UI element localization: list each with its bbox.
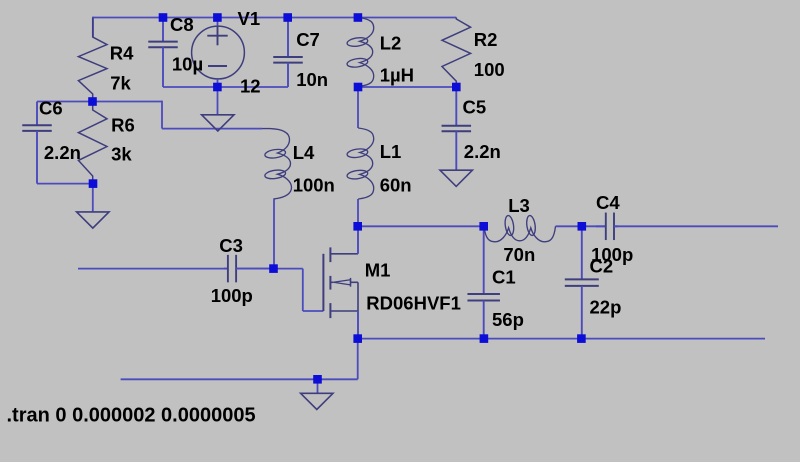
svg-text:R2: R2: [474, 29, 498, 50]
label C2: [590, 255, 614, 276]
svg-text:100: 100: [474, 59, 505, 80]
wire C3 to junction to gate step: [236, 268, 303, 270]
label C8: [170, 14, 194, 35]
svg-text:C7: C7: [296, 29, 320, 50]
label C1: [492, 267, 516, 288]
wire gate rail left: [78, 268, 228, 270]
inductor L4: [262, 129, 292, 200]
capacitor C2: [565, 226, 599, 338]
label C5: [463, 97, 487, 118]
inductor L1: [347, 128, 374, 199]
svg-text:12: 12: [240, 75, 261, 96]
junction node L3 right: [578, 222, 587, 231]
svg-text:70n: 70n: [503, 244, 535, 265]
resistor R6: [78, 102, 107, 184]
wire R4 top lead: [92, 17, 94, 37]
svg-text:R6: R6: [111, 114, 135, 135]
label C6 value 2.2n: [44, 142, 81, 163]
label M1: [365, 259, 391, 280]
wire C6 bottom to R6 bottom: [37, 183, 93, 185]
label C3: [219, 235, 243, 256]
junction node source: [353, 334, 362, 343]
ground below source rail: [301, 379, 333, 409]
inductor L2: [347, 18, 374, 87]
wire L2 bottom to R2 bottom: [358, 86, 457, 88]
capacitor C7: [273, 18, 303, 88]
svg-text:56p: 56p: [492, 309, 524, 330]
svg-text:3k: 3k: [111, 144, 132, 165]
svg-text:L1: L1: [380, 141, 402, 162]
spice directive .tran: [7, 405, 256, 427]
label R6: [111, 114, 135, 135]
junction node ground rail: [313, 375, 322, 384]
wire L3 right to C4: [556, 225, 606, 227]
label L1: [380, 141, 402, 162]
svg-text:2.2n: 2.2n: [464, 141, 501, 162]
label C7: [296, 29, 320, 50]
label L2: [380, 32, 402, 53]
label L2 value 1µH: [380, 65, 414, 86]
resistor R4: [78, 18, 107, 102]
svg-text:L4: L4: [293, 142, 315, 163]
wire gate step down: [302, 269, 304, 311]
voltage source V1: [192, 18, 245, 88]
svg-text:C5: C5: [463, 97, 487, 118]
wire L1 top lead: [357, 87, 359, 128]
svg-text:10µ: 10µ: [172, 53, 203, 74]
label C5 value 2.2n: [464, 141, 501, 162]
junction node L3 left: [479, 222, 488, 231]
label C2 value 22p: [590, 296, 622, 317]
svg-text:R4: R4: [110, 43, 134, 64]
svg-text:L2: L2: [380, 32, 402, 53]
label C6: [39, 97, 63, 118]
svg-text:22p: 22p: [590, 296, 622, 317]
label L4 value 100n: [293, 174, 335, 195]
wire gate step to gate: [303, 310, 324, 312]
svg-text:1µH: 1µH: [380, 65, 414, 86]
label C8 value 10µ: [172, 53, 203, 74]
wire top rail: [93, 17, 456, 19]
junction node L2 top: [354, 13, 363, 22]
label M1 value RD06HVF1: [366, 292, 461, 313]
capacitor C3: [224, 255, 274, 283]
junction node C2 bottom: [577, 334, 586, 343]
junction node V1 top: [213, 13, 222, 22]
capacitor C4: [596, 213, 618, 241]
junction node L2 bottom: [354, 83, 363, 92]
junction node C3-L4-gate: [269, 264, 278, 273]
capacitor C5: [442, 87, 472, 170]
svg-text:V1: V1: [238, 8, 261, 29]
label L3: [508, 195, 530, 216]
label R4: [110, 43, 134, 64]
inductor L3: [484, 215, 556, 242]
svg-text:C4: C4: [596, 192, 620, 213]
svg-text:.tran 0 0.000002 0.0000005: .tran 0 0.000002 0.0000005: [7, 405, 256, 427]
junction node C7 top: [283, 13, 292, 22]
label R6 value 3k: [111, 144, 132, 165]
label R4 value 7k: [110, 73, 131, 94]
label V1: [238, 8, 261, 29]
svg-text:C2: C2: [590, 255, 614, 276]
label L4: [293, 142, 315, 163]
wire R4R6 junction right: [93, 101, 163, 103]
resistor R2: [442, 18, 471, 88]
transistor M1: [323, 226, 358, 338]
junction node C6-R6 bottom: [89, 179, 98, 188]
wire source down: [357, 339, 359, 380]
capacitor C6: [22, 102, 52, 184]
svg-text:100n: 100n: [293, 174, 335, 195]
label C3 value 100p: [211, 285, 253, 306]
svg-text:C3: C3: [219, 235, 243, 256]
ground below C5: [440, 170, 472, 186]
label R2: [474, 29, 498, 50]
wire C8 bottom to V1 to C7 bottom: [163, 86, 288, 88]
junction node V1 bottom: [213, 83, 222, 92]
label V1 value 12: [240, 75, 261, 96]
svg-text:RD06HVF1: RD06HVF1: [366, 292, 461, 313]
svg-text:C6: C6: [39, 97, 63, 118]
capacitor C8: [148, 18, 178, 88]
svg-text:7k: 7k: [110, 73, 131, 94]
wire bottom rail: [358, 338, 765, 340]
wire L4 bottom lead: [273, 200, 275, 269]
wire lower ground rail: [121, 378, 358, 380]
junction node C8 top: [159, 13, 168, 22]
svg-text:C1: C1: [492, 267, 516, 288]
junction node R2-C5: [452, 83, 461, 92]
capacitor C1: [467, 226, 500, 338]
wire to L4 entry: [162, 128, 262, 130]
label L1 value 60n: [380, 175, 412, 196]
svg-text:L3: L3: [508, 195, 530, 216]
label C1 value 56p: [492, 309, 524, 330]
ground below V1: [202, 87, 234, 131]
ground below R6: [77, 184, 109, 229]
label R2 value 100: [474, 59, 505, 80]
svg-text:C8: C8: [170, 14, 194, 35]
label C4: [596, 192, 620, 213]
junction node R4-R6: [88, 97, 97, 106]
junction node drain: [353, 222, 362, 231]
svg-text:60n: 60n: [380, 175, 412, 196]
svg-text:2.2n: 2.2n: [44, 142, 81, 163]
svg-text:M1: M1: [365, 259, 391, 280]
svg-text:10n: 10n: [296, 69, 328, 90]
wire drain rail: [358, 225, 484, 227]
label L3 value 70n: [503, 244, 535, 265]
junction node C1 bottom: [480, 334, 489, 343]
label C4 value 100p: [591, 244, 633, 265]
wire R4R6 junction to C6 top: [37, 101, 93, 103]
wire C4 right out: [614, 225, 778, 227]
svg-text:100p: 100p: [211, 285, 253, 306]
label C7 value 10n: [296, 69, 328, 90]
wire L1 bottom lead: [357, 199, 359, 226]
wire step down to L4 entry level: [161, 101, 163, 129]
